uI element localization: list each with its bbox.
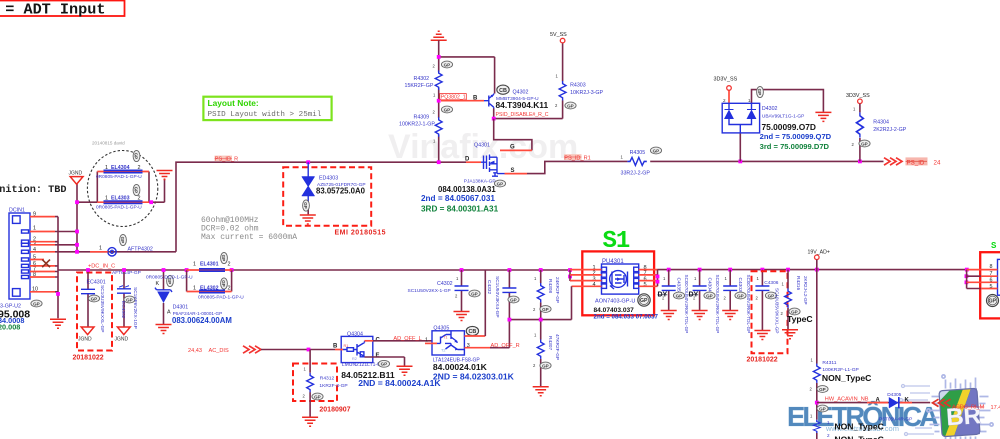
svg-text:Q4301: Q4301 xyxy=(474,142,490,148)
svg-text:2ND = 84.00024.A1K: 2ND = 84.00024.A1K xyxy=(358,378,441,388)
svg-text:0R0805-DCD-1-GP-U: 0R0805-DCD-1-GP-U xyxy=(146,275,193,281)
svg-text:NON_TypeC: NON_TypeC xyxy=(822,373,872,383)
svg-text:ignition: TBD: ignition: TBD xyxy=(0,184,66,196)
svg-text:24KR2F-GP: 24KR2F-GP xyxy=(554,277,560,303)
svg-text:5V_SS: 5V_SS xyxy=(550,32,567,38)
svg-text:PS_ID_R: PS_ID_R xyxy=(215,157,238,163)
svg-text:JGND: JGND xyxy=(78,337,92,343)
svg-text:GP: GP xyxy=(640,298,648,304)
svg-text:2KR2J-L2-GP: 2KR2J-L2-GP xyxy=(803,276,808,305)
svg-text:K: K xyxy=(905,398,910,404)
svg-text:SC10U35V9KXXL-GP: SC10U35V9KXXL-GP xyxy=(775,288,780,333)
svg-text:AON7403-GP-U: AON7403-GP-U xyxy=(595,299,635,305)
svg-text:AFT614P-GP: AFT614P-GP xyxy=(112,270,141,276)
svg-text:2: 2 xyxy=(723,98,726,103)
svg-text:R4303: R4303 xyxy=(570,83,586,89)
svg-text:2: 2 xyxy=(228,261,231,267)
svg-text:1: 1 xyxy=(748,98,751,103)
svg-text:A: A xyxy=(167,310,171,316)
svg-text:SC1KP6V2KX-1GP: SC1KP6V2KX-1GP xyxy=(132,287,138,329)
svg-text:1KR2F-3-GP: 1KR2F-3-GP xyxy=(319,383,347,389)
svg-text:C = ADT Input: C = ADT Input xyxy=(0,1,105,19)
svg-text:D4302: D4302 xyxy=(762,106,778,112)
svg-text:EC4302: EC4302 xyxy=(120,301,126,319)
svg-text:NON_TypeC: NON_TypeC xyxy=(834,435,884,439)
svg-text:T1: T1 xyxy=(443,336,447,340)
svg-text:R4302: R4302 xyxy=(414,76,430,82)
svg-text:S: S xyxy=(991,241,997,251)
svg-text:E: E xyxy=(376,353,380,359)
svg-text:10KR2J-3-GP: 10KR2J-3-GP xyxy=(570,90,603,96)
svg-text:2: 2 xyxy=(138,165,141,171)
svg-text:20181022: 20181022 xyxy=(73,355,104,362)
svg-text:P6T05V-4R-GP: P6T05V-4R-GP xyxy=(879,417,912,423)
svg-text:2: 2 xyxy=(228,285,231,291)
svg-text:AD_OFF_L: AD_OFF_L xyxy=(393,336,421,342)
svg-text:TypeC: TypeC xyxy=(787,314,813,324)
svg-text:0R0805-PAD-1-GP-U: 0R0805-PAD-1-GP-U xyxy=(96,205,142,211)
svg-text:S: S xyxy=(511,168,515,174)
svg-text:83.05725.0A0: 83.05725.0A0 xyxy=(316,187,366,196)
svg-text:2ND = 84.02303.01K: 2ND = 84.02303.01K xyxy=(433,372,515,382)
svg-text:Q4302: Q4302 xyxy=(513,89,529,95)
svg-text:0R0805-PAD-1-GP-U: 0R0805-PAD-1-GP-U xyxy=(96,174,142,180)
svg-text:20180907: 20180907 xyxy=(319,406,350,413)
svg-text:EL4304: EL4304 xyxy=(111,165,130,171)
svg-text:R4309: R4309 xyxy=(414,115,430,121)
svg-text:UBAV99LT1G-1-GP: UBAV99LT1G-1-GP xyxy=(762,114,804,120)
svg-text:R4316: R4316 xyxy=(795,276,801,290)
svg-text:PS_ID_R1: PS_ID_R1 xyxy=(564,155,590,161)
svg-text:R4305: R4305 xyxy=(630,150,646,156)
svg-text:3rd = 75.00099.D7D: 3rd = 75.00099.D7D xyxy=(760,142,830,151)
svg-text:5: 5 xyxy=(644,282,647,288)
svg-text:PSID_DISABLE#_R_C: PSID_DISABLE#_R_C xyxy=(496,112,549,118)
svg-text:1: 1 xyxy=(105,196,108,202)
svg-text:AD_OFF_R: AD_OFF_R xyxy=(491,343,520,349)
svg-text:C4302: C4302 xyxy=(437,281,453,287)
svg-text:HW_ACAVIN_NB: HW_ACAVIN_NB xyxy=(825,396,869,402)
svg-text:1: 1 xyxy=(827,420,830,425)
svg-text:17.4: 17.4 xyxy=(991,405,1000,411)
svg-text:1: 1 xyxy=(105,165,108,171)
svg-text:+DC_IN_C: +DC_IN_C xyxy=(88,263,115,269)
svg-text:C4303: C4303 xyxy=(737,278,743,292)
svg-text:20181022: 20181022 xyxy=(747,357,778,364)
svg-text:20140815 david: 20140815 david xyxy=(92,141,125,146)
svg-text:A: A xyxy=(876,398,881,404)
svg-text:2nd = 084.033 07.0037: 2nd = 084.033 07.0037 xyxy=(594,314,659,321)
svg-text:B: B xyxy=(333,343,338,349)
svg-text:R4304: R4304 xyxy=(873,119,889,125)
svg-text:0R0805-PAD-1-GP-U: 0R0805-PAD-1-GP-U xyxy=(198,294,244,300)
svg-text:2nd = 84.05067.031: 2nd = 84.05067.031 xyxy=(421,194,495,203)
svg-text:Q4304: Q4304 xyxy=(347,331,363,337)
svg-text:EL4301: EL4301 xyxy=(200,261,219,267)
svg-text:JGND: JGND xyxy=(115,337,129,343)
svg-text:ED4303: ED4303 xyxy=(319,176,338,182)
svg-text:084.00138.0A31: 084.00138.0A31 xyxy=(438,185,496,194)
svg-text:24,43: 24,43 xyxy=(188,348,202,354)
svg-text:EL4302: EL4302 xyxy=(200,285,219,291)
svg-text:SC0D70U50V2R0K-TDL-GP: SC0D70U50V2R0K-TDL-GP xyxy=(684,275,689,334)
svg-text:NON_TypeC: NON_TypeC xyxy=(834,421,884,431)
svg-text:C4306: C4306 xyxy=(764,280,778,286)
svg-text:100KR2J-1-GP: 100KR2J-1-GP xyxy=(399,121,435,127)
svg-text:8: 8 xyxy=(990,264,993,270)
svg-text:R4308: R4308 xyxy=(547,279,553,293)
svg-text:R4312: R4312 xyxy=(320,375,335,381)
svg-text:JGND: JGND xyxy=(69,171,83,177)
svg-text:6: 6 xyxy=(990,277,993,283)
svg-text:PQ3802_1: PQ3802_1 xyxy=(441,95,466,101)
svg-text:R2: R2 xyxy=(352,357,357,361)
svg-text:3D3V_SS: 3D3V_SS xyxy=(714,77,738,83)
svg-text:ACDC_RI_M: ACDC_RI_M xyxy=(952,404,985,410)
svg-text:47KR2F-GP: 47KR2F-GP xyxy=(554,334,560,360)
svg-text:PSID Layout width > 25mil: PSID Layout width > 25mil xyxy=(208,111,322,119)
svg-text:84.T3904.K11: 84.T3904.K11 xyxy=(496,100,549,110)
svg-text:R4307: R4307 xyxy=(547,336,553,350)
svg-text:EL4303: EL4303 xyxy=(111,196,130,202)
svg-text:2K2R2J-2-GP: 2K2R2J-2-GP xyxy=(873,127,906,133)
svg-text:2nd = 75.00099.Q7D: 2nd = 75.00099.Q7D xyxy=(760,132,832,141)
svg-text:SC1U50V2KX-1-GP: SC1U50V2KX-1-GP xyxy=(408,288,451,294)
svg-text:SC10U35V9KXXL-GP: SC10U35V9KXXL-GP xyxy=(99,285,105,332)
svg-text:C4335: C4335 xyxy=(676,278,682,292)
svg-text:AFTP4302: AFTP4302 xyxy=(128,247,153,253)
svg-text:T2: T2 xyxy=(441,349,445,353)
svg-text:1: 1 xyxy=(99,246,102,252)
svg-text:75.00099.O7D: 75.00099.O7D xyxy=(762,122,816,132)
svg-text:2: 2 xyxy=(138,196,141,202)
svg-text:SC0D70U50V2R0K-TDL-GP: SC0D70U50V2R0K-TDL-GP xyxy=(715,275,720,334)
svg-text:1: 1 xyxy=(33,226,36,232)
svg-text:PJA138KA-GP: PJA138KA-GP xyxy=(464,179,496,185)
svg-text:Layout Note:: Layout Note: xyxy=(208,98,259,108)
svg-text:1: 1 xyxy=(193,285,196,291)
svg-text:1: 1 xyxy=(193,261,196,267)
svg-text:15KR2F-GP: 15KR2F-GP xyxy=(405,83,434,89)
svg-text:EMI 20180515: EMI 20180515 xyxy=(335,230,387,237)
svg-text:R4311: R4311 xyxy=(822,360,836,366)
svg-text:84.00024.01K: 84.00024.01K xyxy=(433,362,488,372)
svg-text:3RD = 84.00301.A31: 3RD = 84.00301.A31 xyxy=(421,205,499,214)
svg-text:24: 24 xyxy=(934,159,941,166)
svg-text:33R2J-2-GP: 33R2J-2-GP xyxy=(621,171,651,177)
svg-text:G: G xyxy=(510,144,515,150)
svg-text:Max current = 6000mA: Max current = 6000mA xyxy=(201,233,297,242)
svg-text:3D3V_SS: 3D3V_SS xyxy=(846,93,870,99)
svg-text:Q4305: Q4305 xyxy=(433,325,449,331)
svg-text:7: 7 xyxy=(990,271,993,277)
svg-text:SC1U50V3KX4-GP: SC1U50V3KX4-GP xyxy=(494,276,500,318)
svg-text:19V_AD+: 19V_AD+ xyxy=(808,249,830,255)
svg-text:4: 4 xyxy=(593,282,596,288)
svg-text:C4332: C4332 xyxy=(486,280,492,294)
svg-text:5: 5 xyxy=(990,284,993,290)
svg-text:SC0D70U50V2R0K-TDL-GP: SC0D70U50V2R0K-TDL-GP xyxy=(746,275,751,334)
svg-text:2: 2 xyxy=(827,433,830,438)
svg-text:K: K xyxy=(156,281,160,287)
svg-text:083.00624.00AM: 083.00624.00AM xyxy=(172,316,232,325)
svg-text:3: 3 xyxy=(467,343,470,349)
svg-text:D4301: D4301 xyxy=(173,305,189,311)
svg-text:R1: R1 xyxy=(344,344,349,348)
svg-text:C4304: C4304 xyxy=(707,278,713,292)
svg-text:B: B xyxy=(473,95,478,101)
svg-text:PS_ID: PS_ID xyxy=(907,159,925,166)
svg-text:GP: GP xyxy=(989,299,997,305)
svg-text:AC_DIS: AC_DIS xyxy=(209,348,229,354)
svg-text:D: D xyxy=(465,157,470,163)
svg-text:20.008: 20.008 xyxy=(0,323,20,332)
